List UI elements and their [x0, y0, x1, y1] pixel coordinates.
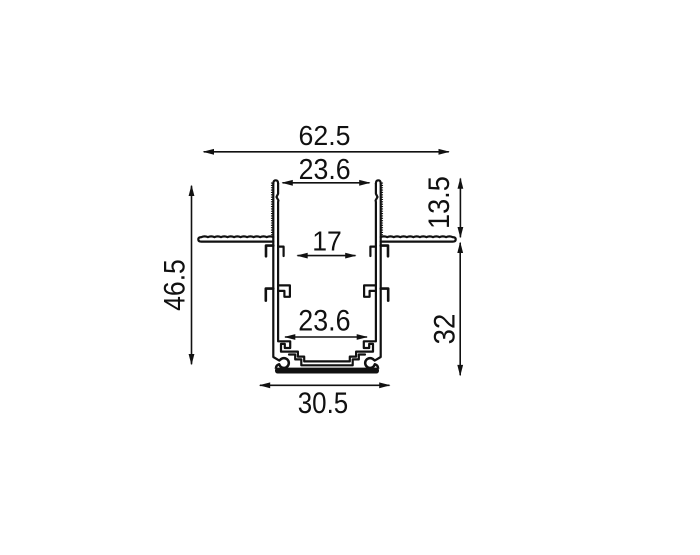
svg-text:46.5: 46.5: [158, 259, 191, 311]
svg-text:30.5: 30.5: [298, 386, 348, 419]
svg-text:32: 32: [429, 314, 462, 345]
svg-text:23.6: 23.6: [299, 153, 351, 185]
svg-text:17: 17: [312, 225, 342, 257]
svg-text:23.6: 23.6: [298, 303, 350, 336]
svg-text:13.5: 13.5: [423, 176, 456, 229]
svg-text:62.5: 62.5: [299, 120, 351, 151]
